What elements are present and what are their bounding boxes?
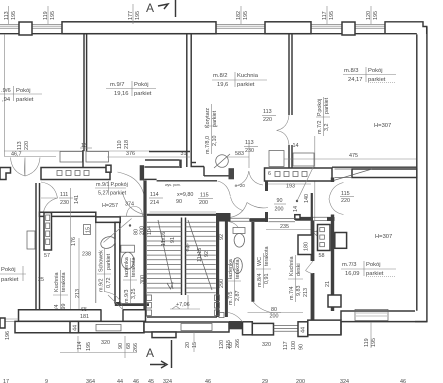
svg-text:2,87: 2,87 — [235, 291, 241, 302]
svg-text:m.8/4: m.8/4 — [257, 274, 263, 287]
label m.7/2 P.pokoj rotated — [316, 97, 330, 136]
svg-text:H=257: H=257 — [102, 203, 118, 209]
wall pier 1 — [19, 22, 32, 35]
svg-text:14: 14 — [293, 143, 299, 149]
washbasin schowek — [99, 234, 117, 250]
svg-text:Korytarz: Korytarz — [205, 108, 211, 128]
flue wall kitchen m.9/4 — [44, 213, 52, 251]
svg-text:195: 195 — [243, 11, 249, 20]
svg-text:220: 220 — [341, 198, 350, 204]
wire window glazing — [0, 26, 385, 28]
svg-text:H=307: H=307 — [375, 234, 392, 240]
wall pier 4 — [342, 22, 355, 35]
svg-text:parkiet: parkiet — [368, 77, 386, 83]
svg-text:104: 104 — [147, 226, 153, 235]
lazienka door arc dome — [127, 207, 143, 217]
svg-text:15: 15 — [192, 342, 198, 348]
svg-text:9: 9 — [45, 379, 48, 383]
svg-text:68: 68 — [126, 343, 132, 349]
svg-text:29: 29 — [262, 379, 268, 383]
svg-text:m.7/3: m.7/3 — [342, 262, 357, 268]
wall m.9/7 bottom (thin line) — [4, 150, 150, 152]
porch step under stair band — [152, 332, 176, 338]
svg-text:324: 324 — [163, 379, 172, 383]
svg-text:5,27: 5,27 — [98, 191, 109, 197]
svg-text:0,91: 0,91 — [264, 274, 270, 285]
top band of unit7 corridor thin — [231, 218, 250, 221]
svg-text:220: 220 — [24, 141, 30, 150]
svg-text:90: 90 — [277, 198, 283, 204]
lower-left unit exterior wall — [36, 183, 40, 310]
svg-text:15: 15 — [86, 227, 92, 233]
svg-text:200: 200 — [270, 314, 279, 320]
svg-text:parkiet: parkiet — [134, 91, 152, 97]
svg-text:m.9/2: m.9/2 — [99, 279, 105, 292]
svg-text:177: 177 — [128, 11, 134, 20]
flue box kitchen m.7/4 — [318, 225, 331, 251]
dark block stair top right — [217, 213, 231, 222]
svg-text:Schowek: Schowek — [99, 250, 105, 272]
label m.9/4 Kuchnia rotated — [53, 270, 68, 318]
wire wall inner edge — [0, 33, 417, 35]
door leaf dot — [296, 200, 298, 202]
left flight treads — [147, 222, 182, 293]
svg-text:117: 117 — [283, 341, 289, 350]
stairwell bottom band — [144, 322, 229, 332]
svg-text:11x16: 11x16 — [161, 232, 167, 246]
svg-text:wys. pom.: wys. pom. — [165, 183, 181, 187]
stairs — [140, 218, 225, 310]
svg-text:parkiet: parkiet — [106, 253, 112, 270]
svg-text:24,17: 24,17 — [348, 77, 363, 83]
label m.8/2 Kuchnia — [212, 72, 267, 88]
wall m.8/2 | m.8/3 with door opening — [289, 34, 292, 115]
svg-text:100: 100 — [291, 341, 297, 350]
svg-text:141: 141 — [74, 195, 80, 204]
svg-text:213: 213 — [303, 288, 309, 297]
svg-text:14: 14 — [293, 206, 299, 212]
wardrobe rect 2 — [86, 152, 109, 163]
kitchen m.9/4 top wall — [40, 212, 96, 216]
svg-text:x=9,80: x=9,80 — [177, 192, 193, 198]
kitchen counter rect 1 — [269, 151, 284, 167]
bottom-left kitchen wall band — [19, 310, 146, 322]
svg-text:Kuchnia: Kuchnia — [237, 73, 259, 79]
schowek L wall vertical — [115, 222, 120, 302]
porch lines left — [0, 319, 19, 321]
stairwell left wall — [143, 180, 146, 317]
svg-text:235: 235 — [280, 224, 289, 230]
label m.9/7 Pokoj — [106, 81, 156, 97]
corner block m.7/3 — [328, 295, 341, 307]
corridor wall right of stairwell — [225, 222, 228, 318]
middle wall right top edge — [191, 162, 197, 164]
svg-text:terakota: terakota — [131, 258, 137, 277]
toilet m.7/5 — [233, 228, 245, 248]
svg-text:90: 90 — [299, 344, 305, 350]
svg-text:parkiet: parkiet — [212, 110, 218, 127]
chimney flue band left — [41, 165, 111, 179]
fridge 180 box — [298, 235, 312, 255]
svg-text:46: 46 — [205, 379, 211, 383]
door arc landing 2 — [231, 197, 243, 211]
svg-text:m.9/3: m.9/3 — [124, 290, 130, 303]
svg-text:214: 214 — [150, 200, 159, 206]
svg-text:195: 195 — [373, 11, 379, 20]
wall squares stair bottom — [147, 295, 152, 301]
label m.7/4 Kuchnia rotated — [288, 255, 303, 302]
svg-text:230: 230 — [60, 200, 69, 206]
svg-text:Pokój: Pokój — [366, 262, 381, 268]
radiator left wall — [27, 231, 35, 249]
svg-text:364: 364 — [86, 379, 95, 383]
stair window — [181, 324, 212, 331]
svg-text:114: 114 — [150, 192, 159, 198]
band over stairwell top — [145, 160, 180, 167]
44 box right — [298, 322, 308, 337]
svg-text:176: 176 — [71, 237, 77, 246]
svg-text:20: 20 — [185, 342, 191, 348]
svg-text:324: 324 — [340, 379, 349, 383]
svg-text:,94: ,94 — [2, 97, 11, 103]
svg-text:583: 583 — [235, 151, 244, 157]
lazienka bottom wall — [115, 303, 149, 306]
kitchen counter rect 2 — [293, 153, 314, 166]
hall double door crossing arcs — [118, 172, 148, 215]
label m.7/3 Pokoj — [341, 261, 396, 277]
svg-text:terakota: terakota — [235, 260, 241, 279]
porch band below kitchen 7/4 — [308, 320, 341, 335]
svg-text:0,72: 0,72 — [106, 278, 112, 289]
double door arcs kitchen m.8/2 — [277, 115, 290, 145]
toilet m.9/3 — [121, 245, 134, 269]
svg-text:Pokój: Pokój — [16, 88, 31, 94]
svg-text:terakota: terakota — [264, 247, 270, 266]
svg-text:3,2: 3,2 — [324, 124, 330, 132]
label m.8/4 WC rotated — [256, 247, 271, 288]
svg-text:200: 200 — [296, 379, 305, 383]
svg-text:parkiet: parkiet — [16, 97, 34, 103]
door leaf diagonal schowek — [104, 219, 132, 243]
svg-text:19,6: 19,6 — [217, 82, 228, 88]
svg-text:m.9/7: m.9/7 — [110, 82, 125, 88]
svg-text:parkiet: parkiet — [324, 97, 330, 114]
svg-text:.9/6: .9/6 — [1, 88, 11, 94]
svg-text:m.7/4: m.7/4 — [289, 287, 295, 300]
svg-text:Pokój: Pokój — [1, 267, 16, 273]
svg-text:46: 46 — [400, 379, 406, 383]
svg-text:195: 195 — [329, 11, 335, 20]
svg-text:90: 90 — [176, 199, 182, 205]
bottom dim chain cut — [3, 379, 406, 383]
svg-text:m.8/2: m.8/2 — [213, 73, 228, 79]
svg-text:117: 117 — [322, 11, 328, 20]
svg-text:21: 21 — [325, 281, 331, 287]
label Pokoj cut left — [0, 266, 26, 283]
svg-text:300: 300 — [140, 275, 146, 284]
svg-text:180: 180 — [304, 242, 310, 251]
svg-text:119: 119 — [364, 338, 370, 347]
svg-text:A: A — [146, 1, 154, 15]
kitchen m.7/4 top wall — [295, 217, 313, 221]
wall m.8/3 / m.7/3 band with door — [352, 169, 417, 178]
door hall to kitchen m.9/4 arcs — [41, 182, 58, 212]
svg-text:181: 181 — [80, 314, 89, 320]
svg-text:deski: deski — [296, 263, 302, 276]
svg-text:44: 44 — [301, 327, 307, 333]
T wall lazienka/WC bar — [249, 218, 266, 222]
svg-text:65: 65 — [228, 342, 234, 348]
wire wall seg — [149, 151, 190, 153]
svg-text:+7,06: +7,06 — [176, 302, 190, 308]
svg-text:m.7/8,0: m.7/8,0 — [205, 136, 211, 154]
kitchen dim lines — [71, 188, 80, 318]
svg-text:WC: WC — [257, 257, 263, 266]
svg-text:terakota: terakota — [61, 273, 67, 292]
svg-text:46,7: 46,7 — [11, 151, 22, 157]
svg-text:213: 213 — [75, 289, 81, 298]
svg-text:195: 195 — [135, 11, 141, 20]
svg-text:44: 44 — [73, 325, 79, 331]
svg-text:195: 195 — [50, 11, 56, 20]
label m.9/1 P.pokoj — [95, 181, 128, 197]
svg-text:110: 110 — [117, 140, 123, 149]
door band 235 — [269, 219, 296, 222]
label m.9/2 Schowek rotated — [97, 248, 112, 292]
corridor door arc bottom — [228, 313, 243, 322]
svg-text:238: 238 — [82, 252, 91, 258]
door arc landing 1 — [218, 181, 231, 196]
svg-text:x~20: x~20 — [235, 183, 245, 188]
wall stub — [82, 150, 84, 168]
wall pier 2 long — [62, 22, 216, 34]
svg-text:220: 220 — [263, 117, 272, 123]
svg-text:182: 182 — [236, 11, 242, 20]
svg-text:parkiet: parkiet — [366, 271, 384, 277]
svg-text:92: 92 — [204, 251, 210, 257]
svg-text:113: 113 — [4, 11, 10, 20]
svg-text:m.9/1: m.9/1 — [96, 182, 109, 188]
svg-text:58: 58 — [319, 253, 325, 259]
stairwell right wall — [216, 213, 219, 317]
stair direction lines — [158, 220, 173, 289]
svg-text:195: 195 — [86, 342, 92, 351]
svg-text:P.pokój: P.pokój — [317, 99, 323, 116]
svg-text:21: 21 — [313, 230, 319, 236]
wall pier 3 — [265, 22, 311, 34]
svg-text:parkiet: parkiet — [237, 82, 255, 88]
svg-text:H=307: H=307 — [374, 123, 391, 129]
door fan arcs m.7/3 — [329, 183, 344, 215]
svg-text:376: 376 — [126, 151, 135, 157]
top exterior wall band — [0, 22, 427, 35]
svg-text:113: 113 — [17, 141, 23, 150]
svg-text:120: 120 — [366, 11, 372, 20]
lazienka top thin line — [119, 215, 145, 217]
kitchen m.7/4 right wall — [311, 221, 315, 320]
svg-text:19,16: 19,16 — [114, 91, 129, 97]
wall m.7/3 left — [331, 178, 334, 312]
svg-text:92: 92 — [219, 234, 225, 240]
svg-text:91: 91 — [170, 237, 176, 243]
wardrobe rect m.7/3 — [335, 233, 347, 249]
m.7/3 bottom wall with window — [341, 311, 427, 335]
landing top wall — [147, 214, 217, 216]
label m.8/3 Pokoj — [343, 67, 396, 83]
svg-text:9,83: 9,83 — [296, 286, 302, 297]
right exterior wall — [415, 27, 427, 322]
unit7 bottom wall dark — [229, 321, 243, 329]
hall m.7/2 left wall segments — [265, 181, 268, 222]
wardrobe rect 1 — [60, 152, 83, 163]
svg-text:2,10: 2,10 — [212, 136, 218, 147]
svg-text:320: 320 — [101, 340, 110, 346]
T wall stem — [251, 222, 254, 302]
svg-text:140: 140 — [304, 194, 310, 203]
svg-text:6: 6 — [268, 171, 271, 177]
svg-text:Kuchnia: Kuchnia — [289, 257, 295, 276]
pier block — [243, 322, 253, 335]
corridor label m.7/8,0 Korytarz rotated — [204, 104, 218, 154]
door stairs to unit7 — [228, 222, 240, 234]
door m.7/4 to m.7/3 — [306, 261, 314, 274]
center stringer — [182, 218, 186, 296]
label m.9/6 Pokoj — [0, 86, 42, 103]
svg-text:31: 31 — [181, 151, 187, 157]
svg-text:266: 266 — [133, 343, 139, 352]
svg-text:195: 195 — [11, 11, 17, 20]
circle column symbol — [216, 155, 229, 168]
door leaf diagonal in band — [334, 169, 373, 181]
svg-text:11x16: 11x16 — [197, 248, 203, 262]
svg-text:115: 115 — [200, 193, 209, 199]
svg-text:P.pokój: P.pokój — [111, 182, 128, 188]
svg-text:111: 111 — [60, 192, 68, 198]
threshold lines — [274, 326, 299, 332]
svg-text:196: 196 — [5, 331, 11, 340]
44 box left — [70, 321, 79, 332]
lazienka door arc bottom — [253, 302, 273, 313]
wall m.9/7 | korytarz — [187, 34, 191, 167]
bottom-left outer band — [15, 321, 144, 332]
svg-text:45: 45 — [148, 379, 154, 383]
svg-text:218: 218 — [124, 140, 130, 149]
svg-text:46: 46 — [133, 379, 139, 383]
svg-text:25: 25 — [38, 277, 44, 283]
svg-text:parkiet: parkiet — [1, 277, 19, 283]
window/door unit7 bottom — [252, 323, 273, 335]
svg-text:łazienka: łazienka — [228, 259, 234, 279]
svg-text:A: A — [146, 346, 154, 360]
wall m.9/6 | m.9/7 — [84, 34, 87, 151]
svg-text:16,09: 16,09 — [345, 271, 360, 277]
svg-text:200: 200 — [275, 207, 284, 213]
svg-text:113: 113 — [263, 109, 272, 115]
sink m.7/5 — [233, 258, 243, 274]
V door arcs to unit 7 hall — [230, 171, 269, 218]
svg-text:119: 119 — [43, 11, 49, 20]
svg-text:m.7/5: m.7/5 — [228, 292, 234, 305]
svg-text:120: 120 — [219, 340, 225, 349]
svg-text:parkiet: parkiet — [110, 191, 127, 197]
svg-text:3,25: 3,25 — [131, 289, 137, 300]
svg-text:łazienka: łazienka — [124, 257, 130, 277]
svg-text:Pokój: Pokój — [368, 68, 383, 74]
svg-text:193: 193 — [286, 184, 295, 190]
window bottom-left — [96, 324, 121, 331]
left room edge line m.9/6 — [4, 34, 6, 156]
svg-text:90: 90 — [118, 343, 124, 349]
schowek L wall top — [96, 217, 120, 223]
svg-text:m.8/3: m.8/3 — [344, 68, 359, 74]
right flight treads — [186, 222, 216, 293]
label m.9/3 lazienka rotated — [123, 257, 137, 303]
left exterior wall block entry — [0, 168, 11, 180]
svg-text:230: 230 — [245, 148, 254, 154]
svg-text:17: 17 — [3, 379, 9, 383]
svg-text:290: 290 — [219, 279, 225, 288]
chimney flue band right — [265, 168, 333, 181]
svg-text:266: 266 — [235, 339, 241, 348]
svg-text:65: 65 — [81, 307, 87, 313]
middle wall m.8/3 top edge — [332, 166, 417, 168]
svg-text:57: 57 — [44, 253, 50, 259]
svg-text:Pokój: Pokój — [134, 82, 149, 88]
svg-text:195: 195 — [371, 338, 377, 347]
svg-text:44: 44 — [117, 379, 123, 383]
svg-text:115: 115 — [341, 191, 350, 197]
svg-text:200: 200 — [199, 200, 208, 206]
label m.7/5 lazienka rotated — [227, 258, 241, 306]
wire window outer lines — [0, 24, 385, 26]
svg-text:320: 320 — [262, 342, 271, 348]
svg-text:m.7/2: m.7/2 — [317, 121, 323, 134]
svg-text:475: 475 — [349, 153, 358, 159]
dim ticks top — [9, 4, 372, 24]
closet line — [311, 193, 313, 221]
svg-text:Kuchnia: Kuchnia — [54, 273, 60, 292]
wall pier 5 right corner — [385, 22, 427, 34]
wall kitchen | schowek — [95, 222, 97, 303]
